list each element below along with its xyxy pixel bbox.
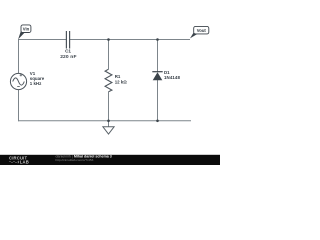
ground	[103, 127, 114, 134]
wire left vertical lower (V1 bottom to bottom rail)	[18, 90, 20, 122]
svg-text:http://circuitlab.com/c/7r453: http://circuitlab.com/c/7r453	[56, 158, 94, 162]
wire bottom horizontal rail	[18, 120, 191, 122]
node junction top R1	[107, 38, 110, 41]
wire ground stub	[108, 121, 110, 127]
node junction bottom ground	[107, 120, 110, 123]
svg-text:12 kΩ: 12 kΩ	[115, 79, 128, 84]
svg-text:C1: C1	[65, 49, 71, 54]
capacitor C1	[66, 31, 69, 49]
wire R1 top lead	[108, 40, 110, 70]
svg-text:220 nF: 220 nF	[60, 54, 76, 60]
svg-text:Vin: Vin	[23, 27, 30, 32]
node junction top D1	[156, 38, 159, 41]
footer CircuitLab logo	[9, 156, 29, 165]
diode D1	[152, 72, 162, 81]
voltage source V1	[10, 73, 26, 89]
svg-text:R1: R1	[115, 74, 121, 79]
resistor R1	[105, 69, 112, 92]
wire top horizontal left segment (Vin to C1)	[18, 39, 66, 41]
wire D1 top lead	[157, 40, 159, 72]
wire left vertical upper (Vin corner to V1 top)	[18, 39, 20, 73]
wire R1 bottom lead	[108, 92, 110, 121]
svg-text:LAB: LAB	[20, 160, 29, 165]
wire D1 bottom lead	[157, 80, 159, 121]
wire top horizontal right segment (C1 to Vout)	[70, 39, 190, 41]
footer bar	[0, 155, 220, 165]
node Vout flag	[190, 26, 209, 38]
svg-text:1 kHz: 1 kHz	[30, 81, 42, 86]
svg-text:1N4148: 1N4148	[164, 75, 180, 80]
node Vin flag	[18, 25, 31, 40]
svg-text:Vout: Vout	[197, 28, 207, 33]
node junction bottom D1	[156, 120, 159, 123]
